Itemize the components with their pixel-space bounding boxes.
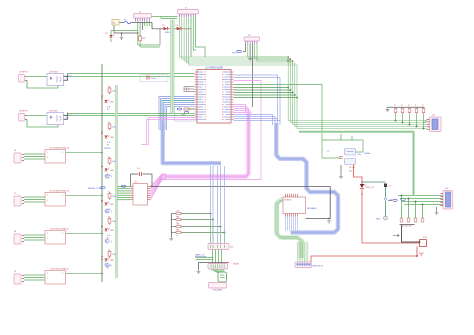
wire green isp <box>224 233 226 245</box>
wire magenta fan <box>151 175 167 189</box>
svg-text:5: 5 <box>62 152 63 154</box>
junction <box>290 89 292 91</box>
optocoupler U3 <box>47 111 64 125</box>
wire black buzz2 <box>402 225 420 242</box>
junction <box>151 186 152 187</box>
svg-text:2: 2 <box>47 238 48 240</box>
wire magenta <box>233 111 250 114</box>
svg-text:HDR-M: HDR-M <box>285 200 292 202</box>
label <box>401 226 412 228</box>
relay K4 <box>45 269 70 285</box>
driver resistor+led <box>101 249 116 262</box>
bus green line2 <box>115 85 117 278</box>
wire magenta fan <box>151 176 167 191</box>
svg-text:220 220 220: 220 220 220 <box>401 226 412 228</box>
svg-text:10k: 10k <box>177 223 180 225</box>
labels <box>107 265 111 270</box>
wire blue <box>159 97 195 131</box>
wire <box>184 87 195 92</box>
wire <box>114 26 122 34</box>
connector J2 <box>134 12 152 22</box>
buzzer LS1 <box>419 237 428 247</box>
net label ovals <box>393 198 405 201</box>
wire green bus <box>184 17 427 125</box>
fuse F1 <box>124 20 131 24</box>
label <box>349 167 355 173</box>
microcontroller U1 <box>195 67 234 124</box>
wire magenta <box>233 107 247 114</box>
wire drop2 <box>415 202 417 219</box>
relay K1 <box>45 148 70 164</box>
wire red bottom <box>311 256 417 262</box>
bus green line2b <box>116 85 118 278</box>
ground <box>197 270 201 274</box>
svg-text:10k: 10k <box>177 216 180 218</box>
wire <box>426 118 428 120</box>
wire <box>426 128 428 130</box>
connector J5 <box>19 111 29 122</box>
svg-text:R9 1M: R9 1M <box>349 167 355 169</box>
wire <box>426 121 428 123</box>
wire <box>138 44 160 46</box>
wire drop2 <box>408 199 410 219</box>
transistor Q <box>105 209 113 213</box>
wire <box>131 22 152 24</box>
labels <box>107 235 111 240</box>
junction <box>101 233 102 234</box>
net label RST <box>177 108 181 110</box>
junction <box>328 218 329 219</box>
wire blue <box>164 103 195 131</box>
junction <box>402 122 404 124</box>
pullup resistor <box>176 210 181 218</box>
bus band green pale2 <box>115 85 118 278</box>
pullup resistor top <box>415 105 418 114</box>
wire <box>249 44 251 57</box>
wire green fan C <box>305 242 307 262</box>
driver resistor+led <box>101 191 116 206</box>
svg-text:2N2222: 2N2222 <box>104 148 111 150</box>
wire blue isp <box>224 166 226 246</box>
wire <box>215 250 217 264</box>
wire <box>174 115 195 117</box>
capacitor C5 <box>345 159 356 165</box>
svg-text:K2 SONGLE SRD-05: K2 SONGLE SRD-05 <box>50 191 70 193</box>
svg-text:LED: LED <box>110 204 114 206</box>
wire drop <box>409 114 411 125</box>
capacitor C7 <box>384 184 392 188</box>
wire <box>27 120 58 128</box>
power entry module PS1 <box>112 20 119 26</box>
wire <box>426 126 428 128</box>
wire drop <box>402 114 404 123</box>
wire <box>131 174 139 187</box>
wire pullup <box>171 226 220 228</box>
wire blue <box>233 78 280 122</box>
labels <box>107 175 111 180</box>
connector J8 <box>14 231 24 244</box>
led D8 <box>360 184 367 188</box>
svg-text:GND: GND <box>376 219 381 221</box>
junction <box>101 152 102 153</box>
transistor Q <box>105 239 113 243</box>
wire <box>122 32 138 34</box>
net label DTR <box>181 111 189 116</box>
wire green usb fan <box>215 269 218 273</box>
svg-text:U2 PC817: U2 PC817 <box>49 72 59 74</box>
wire <box>426 118 428 120</box>
svg-text:U3 PC817: U3 PC817 <box>49 111 59 113</box>
wire blue <box>233 115 272 126</box>
wire <box>24 196 45 198</box>
label <box>366 187 375 189</box>
wire <box>190 17 192 29</box>
driver IC U4 ULN2003 <box>131 182 151 206</box>
wire green term <box>398 195 443 197</box>
connector J9 <box>14 271 24 284</box>
svg-text:100n: 100n <box>151 78 155 80</box>
band to terminals <box>299 132 414 196</box>
wire <box>110 31 112 43</box>
relay K3 <box>45 229 70 245</box>
pullup resistor <box>176 223 181 231</box>
wire green term <box>402 201 443 203</box>
wire red vert <box>416 247 418 257</box>
optocoupler U2 <box>47 72 64 86</box>
wire <box>68 115 175 117</box>
wire green isp <box>220 227 222 245</box>
bus green C line <box>277 198 301 258</box>
wire green usb fan <box>219 269 222 273</box>
diode D2 <box>162 25 172 34</box>
wire magenta <box>233 112 251 115</box>
wire <box>196 17 205 57</box>
junction <box>361 193 362 194</box>
wire blue <box>162 101 195 131</box>
wire blue <box>233 119 277 126</box>
svg-text:UART_TX: UART_TX <box>195 254 205 257</box>
wire <box>341 134 352 140</box>
svg-text:10k: 10k <box>177 229 180 231</box>
capacitor C1 <box>187 88 189 91</box>
wire blue isp <box>212 166 214 246</box>
wire black main <box>151 187 331 219</box>
wire black <box>199 262 226 264</box>
svg-text:LED: LED <box>110 170 114 172</box>
svg-text:2: 2 <box>47 200 48 202</box>
svg-text:5: 5 <box>62 233 63 235</box>
junction <box>416 126 418 128</box>
wire black <box>198 263 200 271</box>
wire green usb fan <box>221 269 224 273</box>
wire black vert <box>170 214 172 238</box>
junction <box>395 120 397 122</box>
driver resistor+led <box>101 156 116 172</box>
junction <box>416 255 418 257</box>
wire <box>141 23 143 31</box>
junction <box>340 131 352 132</box>
bus band blue core <box>163 121 221 163</box>
wire <box>120 22 125 24</box>
wire <box>66 195 103 197</box>
junction <box>137 32 138 33</box>
wire <box>257 44 293 61</box>
svg-text:2: 2 <box>47 157 48 159</box>
wire <box>24 239 45 241</box>
wire green bus <box>180 17 428 121</box>
svg-text:LED_ST: LED_ST <box>366 187 375 189</box>
wire blue <box>233 121 280 126</box>
wire <box>144 22 146 27</box>
wire red long <box>362 189 420 243</box>
wire <box>24 153 45 155</box>
wire <box>388 199 392 201</box>
wire green fan C <box>300 242 302 262</box>
connector J13 <box>295 262 312 268</box>
wire green usb fan <box>213 269 218 273</box>
wire <box>68 76 195 78</box>
wire <box>385 187 387 197</box>
wire <box>196 259 214 261</box>
connector J15 <box>441 188 453 209</box>
port circle <box>376 216 387 220</box>
wire <box>221 250 223 264</box>
transistor Q <box>105 263 113 267</box>
diode D1 <box>105 33 114 38</box>
wire <box>436 207 438 211</box>
wire green fan C <box>307 242 309 262</box>
connector J10 <box>208 244 234 250</box>
svg-text:◌ VBUS: ◌ VBUS <box>231 263 239 266</box>
driver resistor+led <box>101 122 116 139</box>
wire black <box>340 165 342 175</box>
wire <box>24 234 45 236</box>
bus band blue <box>163 121 221 163</box>
wire <box>146 22 148 27</box>
connector J6 <box>14 150 24 163</box>
wire black <box>387 106 425 108</box>
svg-text:LED: LED <box>110 230 114 232</box>
svg-text:5: 5 <box>62 195 63 197</box>
green wire top <box>152 16 178 18</box>
wire magenta fan <box>151 174 167 187</box>
wire green fan <box>118 197 131 199</box>
svg-text:U1 ATMEGA328P: U1 ATMEGA328P <box>205 67 224 70</box>
bus band magenta core <box>166 112 249 177</box>
connector J1 <box>178 8 199 18</box>
wire green <box>233 87 288 89</box>
bus band blue B <box>276 123 338 233</box>
transistor Q5 <box>384 198 393 202</box>
svg-text:J5 INPUT: J5 INPUT <box>19 111 28 113</box>
wire green <box>233 89 290 91</box>
wire <box>152 23 163 29</box>
wire green fan <box>118 188 131 190</box>
bus green C line <box>278 199 302 258</box>
wire green fan <box>118 186 131 188</box>
junction <box>296 97 298 99</box>
usb connector CN1 <box>218 272 227 282</box>
wire drop2 <box>422 205 424 219</box>
svg-text:VIN: VIN <box>232 53 236 55</box>
wire <box>426 123 428 125</box>
wire <box>168 28 177 30</box>
wire blue fan <box>295 217 297 231</box>
relay K2 <box>45 191 70 207</box>
wire drop2 <box>401 196 403 219</box>
wire <box>385 201 387 216</box>
label <box>213 290 223 292</box>
svg-text:K3 SONGLE SRD-05: K3 SONGLE SRD-05 <box>50 229 70 231</box>
junction <box>361 181 362 182</box>
wire <box>161 17 177 19</box>
resistor R3 <box>139 35 146 42</box>
wire <box>426 128 428 130</box>
wire blue fan <box>287 217 289 231</box>
pullup resistor <box>176 229 181 237</box>
pullup resistor <box>176 216 181 224</box>
highlight box <box>175 107 197 122</box>
pullup resistor top <box>394 105 397 114</box>
series resistor <box>407 218 410 222</box>
wire green fan C <box>296 242 298 262</box>
driver resistor+led <box>101 86 116 104</box>
junction <box>294 94 296 96</box>
wire <box>426 121 428 123</box>
wire green usb fan <box>218 269 220 273</box>
wire magenta fan <box>151 178 167 196</box>
wire pullup <box>171 219 213 221</box>
wire green <box>233 97 297 99</box>
wire <box>121 33 123 36</box>
wire <box>184 87 195 92</box>
wire <box>426 126 428 128</box>
svg-text:1: 1 <box>47 195 48 197</box>
wire magenta <box>233 109 248 114</box>
net label <box>232 50 241 54</box>
capacitor C2 <box>147 76 155 81</box>
series resistor <box>414 218 417 222</box>
wire <box>66 152 103 154</box>
resistor R1 <box>184 108 195 110</box>
bus band green C <box>277 198 302 259</box>
wire <box>24 201 45 203</box>
power flag <box>419 253 423 257</box>
labels <box>107 142 111 147</box>
wire blue fan <box>285 217 287 231</box>
wire <box>243 44 246 52</box>
wire green bus <box>189 17 427 129</box>
series resistor <box>400 218 403 222</box>
bus green line <box>171 20 173 114</box>
connector J3 <box>244 35 260 44</box>
wire <box>24 237 45 239</box>
wire <box>255 44 291 59</box>
net label COM <box>88 185 126 190</box>
wire <box>139 42 141 47</box>
svg-text:RELAY_COM: RELAY_COM <box>88 187 102 190</box>
label <box>358 153 371 156</box>
ground <box>248 57 252 61</box>
labels <box>107 107 111 112</box>
wire blue isp <box>210 166 212 246</box>
wire drop <box>416 114 418 127</box>
wire <box>193 17 196 50</box>
wire green term <box>404 204 443 206</box>
junction <box>415 201 417 203</box>
ground <box>120 36 124 40</box>
wire blue isp <box>220 166 222 246</box>
wire <box>181 29 191 57</box>
wire <box>27 76 47 78</box>
wire <box>159 29 161 45</box>
wire blue <box>233 75 277 121</box>
junction <box>288 56 294 61</box>
wire <box>139 23 141 37</box>
wire blue isp <box>217 166 219 246</box>
junction <box>292 92 294 94</box>
wire blue <box>165 105 195 131</box>
svg-text:LED: LED <box>110 102 114 104</box>
wire green bus <box>182 17 427 123</box>
wire green fan <box>118 194 131 196</box>
svg-text:LED: LED <box>110 137 114 139</box>
wire <box>172 113 194 115</box>
bus green line <box>173 20 175 116</box>
wire green fan C <box>302 242 304 262</box>
wire green isp <box>212 220 214 245</box>
svg-text:LED: LED <box>110 260 114 262</box>
wire green usb fan <box>211 269 217 273</box>
wire green fan C <box>303 242 305 262</box>
ground <box>169 237 173 241</box>
wire magenta fan <box>151 177 167 193</box>
wire pink <box>149 118 195 145</box>
driver resistor+led <box>101 216 116 232</box>
pin stub <box>226 263 240 266</box>
wire <box>27 115 47 117</box>
connector J14 <box>427 115 441 132</box>
net arrow <box>393 234 399 236</box>
ground <box>327 220 331 224</box>
wire <box>137 22 139 46</box>
wire <box>24 156 45 158</box>
junction <box>408 198 410 200</box>
wire <box>24 277 45 279</box>
pullup resistor top <box>408 105 411 114</box>
wire <box>218 250 220 264</box>
wire rail <box>101 64 103 282</box>
wire <box>212 250 214 264</box>
junction <box>101 195 102 196</box>
wire pink <box>147 120 195 145</box>
label <box>313 266 324 268</box>
module U5 <box>283 194 306 217</box>
wire <box>143 174 153 187</box>
wire blue fan <box>291 217 293 231</box>
net label <box>195 254 207 257</box>
junction <box>287 87 289 89</box>
wire <box>68 73 195 75</box>
wire <box>24 274 45 276</box>
junction <box>224 232 226 234</box>
wire green fan C <box>298 242 300 262</box>
bus green C line <box>275 198 299 258</box>
svg-text:USB-MINI: USB-MINI <box>213 290 223 292</box>
connector J11 <box>208 264 228 270</box>
svg-text:RF-NANO: RF-NANO <box>307 207 317 210</box>
bus band green pale <box>170 20 174 115</box>
